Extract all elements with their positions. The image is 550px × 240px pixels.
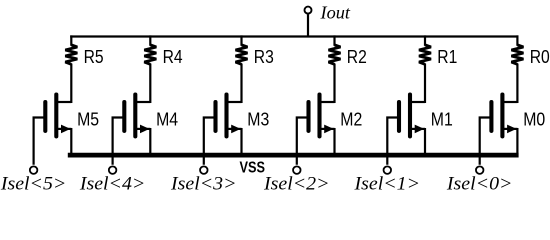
svg-text:M3: M3 [247,110,269,130]
wire R1 to M1 drain [424,64,426,104]
svg-text:Isel<5>: Isel<5> [0,175,66,194]
wire M4 source to VSS [149,128,151,157]
wire M0 gate to terminal [480,118,492,165]
svg-text:Isel<2>: Isel<2> [263,175,330,194]
svg-text:Iout: Iout [319,2,351,22]
node Isel<0> terminal [476,166,484,174]
power rail VSS bus [68,153,519,158]
wire M0 source to VSS [516,128,518,157]
resistor R3 [236,45,248,64]
wire R2 to M2 drain [333,64,335,104]
svg-text:R0: R0 [530,47,550,67]
wire R3 to M3 drain [240,64,242,104]
node Isel<3> terminal [200,166,208,174]
node Isel<4> terminal [109,166,117,174]
svg-text:M1: M1 [431,110,453,130]
wire R0 top lead [516,35,518,45]
wire M1 source to VSS [424,128,426,157]
transistor M5 [45,95,71,137]
resistor R5 [65,45,77,64]
wire M3 source to VSS [240,128,242,157]
node Isel<5> terminal [30,166,38,174]
transistor M3 [216,95,242,137]
transistor M2 [309,95,335,137]
resistor R1 [419,45,431,64]
svg-text:M0: M0 [523,110,545,130]
svg-text:R3: R3 [254,47,274,67]
resistor R2 [329,45,341,64]
svg-text:Isel<0>: Isel<0> [446,175,513,194]
node Iout terminal [305,7,312,14]
node Isel<2> terminal [293,166,301,174]
transistor M1 [399,95,425,137]
svg-text:M4: M4 [156,110,178,130]
resistor R4 [144,45,156,64]
wire R0 to M0 drain [516,64,518,104]
wire M5 source to VSS [70,128,72,157]
wire R3 top lead [240,35,242,45]
node Isel<1> terminal [384,166,392,174]
svg-text:R4: R4 [163,47,183,67]
wire R4 top lead [149,35,151,45]
wire Iout stem [307,14,309,37]
wire M4 gate to terminal [113,118,125,165]
svg-text:Isel<3>: Isel<3> [170,175,237,194]
wire M2 source to VSS [333,128,335,157]
svg-text:R5: R5 [84,47,104,67]
svg-text:Isel<4>: Isel<4> [79,175,146,194]
svg-text:M5: M5 [77,110,99,130]
wire R1 top lead [424,35,426,45]
transistor M4 [124,95,150,137]
svg-text:M2: M2 [340,110,362,130]
svg-text:R1: R1 [437,47,457,67]
resistor R0 [511,45,523,64]
wire M3 gate to terminal [204,118,216,165]
wire M1 gate to terminal [387,118,399,165]
wire M2 gate to terminal [297,118,309,165]
wire top output bus [70,35,518,37]
wire M5 gate to terminal [34,118,46,165]
svg-text:Isel<1>: Isel<1> [353,175,420,194]
wire R2 top lead [333,35,335,45]
svg-text:R2: R2 [347,47,367,67]
wire R5 top lead [70,35,72,45]
wire R4 to M4 drain [149,64,151,104]
wire R5 to M5 drain [70,64,72,104]
svg-text:VSS: VSS [239,159,265,176]
transistor M0 [491,95,517,137]
